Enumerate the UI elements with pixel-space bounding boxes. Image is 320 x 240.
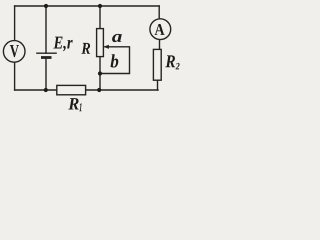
wiper arrowhead xyxy=(103,45,109,49)
label V (voltmeter) xyxy=(10,45,19,57)
voltmeter V body xyxy=(3,41,25,63)
label b xyxy=(111,54,119,67)
ammeter A body xyxy=(150,19,171,40)
resistor R2 body xyxy=(153,49,161,80)
label R1 sub xyxy=(79,103,81,111)
battery E,r long plate xyxy=(36,52,57,54)
junction bottom rheostat node xyxy=(97,88,101,92)
wire bottom rail left xyxy=(15,89,57,91)
label R1 R xyxy=(68,98,78,109)
wire top rail xyxy=(15,5,160,7)
label R2 R xyxy=(165,55,175,67)
wire rheostat branch lower xyxy=(99,57,101,90)
battery E,r short plate xyxy=(41,56,52,59)
junction top rheostat node xyxy=(98,4,102,8)
label E,r xyxy=(53,37,72,52)
wire right rail to ammeter xyxy=(158,6,160,19)
label R xyxy=(81,43,90,54)
resistor R body xyxy=(97,29,104,57)
wire wiper arm xyxy=(101,47,130,74)
resistor R1 body xyxy=(57,85,86,94)
wire battery branch lower xyxy=(45,58,47,90)
wire ammeter to R2 xyxy=(159,40,161,50)
wire battery branch upper xyxy=(45,6,47,53)
wire left rail lower xyxy=(14,62,16,90)
junction bottom battery node xyxy=(44,88,48,92)
label R2 sub xyxy=(176,63,180,70)
wire bottom rail right xyxy=(86,89,158,91)
wire R2 to bottom rail xyxy=(157,80,159,90)
wire rheostat branch upper xyxy=(99,6,101,29)
junction top battery node xyxy=(44,4,48,8)
label a xyxy=(112,34,122,42)
wire left rail upper xyxy=(14,6,16,41)
label A (ammeter) xyxy=(155,24,165,35)
junction wiper tap node xyxy=(98,71,102,75)
